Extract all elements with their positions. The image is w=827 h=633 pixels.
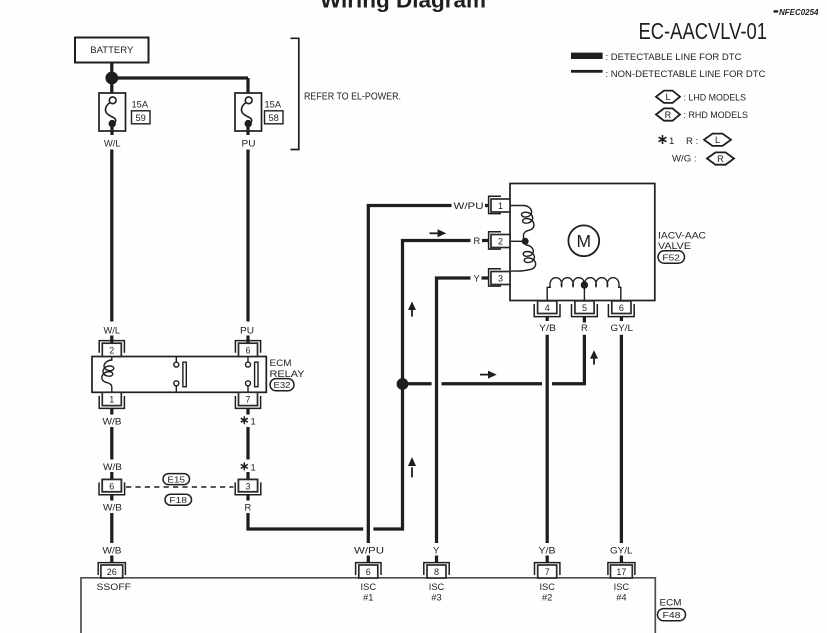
svg-text:15A: 15A bbox=[132, 99, 149, 109]
valve bottom coil left bbox=[547, 278, 584, 301]
svg-text:15A: 15A bbox=[265, 99, 282, 109]
svg-text:#1: #1 bbox=[363, 593, 373, 603]
svg-text:6: 6 bbox=[366, 567, 371, 577]
label ISC #4 bbox=[614, 582, 630, 603]
svg-text:8: 8 bbox=[434, 567, 439, 577]
relay pin 2 bbox=[99, 341, 124, 357]
svg-text:#4: #4 bbox=[616, 593, 626, 603]
motor symbol M bbox=[568, 225, 599, 256]
valve pin 1 bbox=[489, 196, 510, 213]
svg-text:#2: #2 bbox=[542, 593, 552, 603]
valve bottom coil right bbox=[584, 278, 620, 301]
relay name label bbox=[270, 358, 306, 380]
arrow up beside valve pin 5 riser bbox=[590, 350, 598, 365]
ECM pin 8 bbox=[424, 563, 449, 578]
svg-text:1: 1 bbox=[498, 201, 503, 211]
ECM pin 7 bbox=[535, 563, 560, 578]
wire GY/L down to ECM pin 17 bbox=[620, 335, 623, 543]
legend: RHD hexagon symbol bbox=[656, 108, 748, 121]
svg-text:W/PU: W/PU bbox=[454, 201, 484, 211]
IACV-AAC valve body bbox=[510, 184, 655, 301]
svg-text:NFEC0254: NFEC0254 bbox=[779, 7, 819, 17]
svg-text:2: 2 bbox=[498, 237, 503, 247]
svg-text:W/B: W/B bbox=[103, 502, 122, 512]
wire *1 bbox=[246, 427, 249, 460]
wire feed down to fuse 2 bbox=[246, 78, 249, 94]
wire PU stub to relay pin 6 bbox=[246, 336, 249, 344]
svg-text:M: M bbox=[577, 231, 592, 251]
junction dot R net bbox=[397, 378, 409, 390]
valve pin 2 bbox=[489, 232, 510, 249]
ECM pin 17 bbox=[608, 563, 635, 578]
wire Y stub into ECM pin 8 bbox=[435, 556, 438, 564]
svg-text:Y: Y bbox=[433, 545, 439, 555]
valve coil upper (pins 1-2) bbox=[510, 206, 534, 242]
valve coil lower (pins 2-3) bbox=[510, 245, 536, 271]
wire W/B bbox=[110, 427, 113, 460]
svg-text:6: 6 bbox=[109, 481, 114, 491]
wire R stub into valve pin 2 bbox=[482, 239, 489, 242]
wire W/L stub to relay pin 2 bbox=[110, 336, 113, 344]
svg-text:IACV-AAC: IACV-AAC bbox=[658, 230, 706, 241]
connector ref E15 bbox=[163, 474, 190, 485]
connector ref F18 bbox=[165, 494, 192, 505]
svg-text:ISC: ISC bbox=[429, 582, 445, 592]
svg-text:: RHD MODELS: : RHD MODELS bbox=[684, 110, 749, 121]
valve coil junction dot pin 2 bbox=[522, 238, 529, 245]
wire R elbow to junction column bbox=[248, 386, 403, 529]
valve pin 5 bbox=[572, 301, 598, 317]
svg-text:Y/B: Y/B bbox=[539, 545, 556, 555]
valve bottom coil junction dot pin 5 bbox=[581, 281, 588, 288]
connector 3 (E15/F18) bbox=[235, 479, 261, 494]
legend: non-detectable line sample bar bbox=[571, 69, 766, 80]
svg-text:3: 3 bbox=[245, 481, 250, 491]
wire Y stub into valve pin 3 bbox=[482, 276, 490, 279]
valve pin 3 bbox=[489, 269, 510, 286]
svg-text:W/L: W/L bbox=[104, 325, 121, 335]
wire *1 from relay pin 7 bbox=[246, 408, 249, 414]
svg-text:6: 6 bbox=[245, 346, 250, 356]
wire W/L bbox=[110, 150, 113, 322]
wire W/B from relay pin 1 bbox=[110, 408, 113, 414]
relay coil bbox=[102, 357, 114, 393]
svg-text:R: R bbox=[474, 236, 481, 246]
svg-text:F18: F18 bbox=[169, 495, 187, 505]
legend: *1 R footnote with L hexagon bbox=[659, 134, 731, 147]
arrow up beside R column bbox=[408, 302, 416, 317]
wire GY/L stub bbox=[620, 317, 623, 321]
svg-text:W/B: W/B bbox=[103, 545, 122, 555]
svg-text:R: R bbox=[717, 154, 724, 164]
svg-text:6: 6 bbox=[619, 303, 624, 313]
ECM relay body bbox=[92, 357, 266, 393]
svg-text:R :: R : bbox=[686, 136, 698, 147]
svg-text:R: R bbox=[245, 502, 252, 512]
svg-text:F48: F48 bbox=[663, 610, 681, 620]
svg-text:L: L bbox=[715, 135, 720, 145]
wire Y/B stub into ECM pin 7 bbox=[546, 556, 549, 564]
svg-text:17: 17 bbox=[616, 567, 626, 577]
svg-text:3: 3 bbox=[498, 274, 503, 284]
ECM connector ref F48 bbox=[658, 609, 686, 621]
svg-text:E32: E32 bbox=[274, 380, 291, 390]
svg-text:W/L: W/L bbox=[104, 138, 121, 148]
svg-text:59: 59 bbox=[136, 113, 146, 123]
svg-text:4: 4 bbox=[545, 303, 550, 313]
wire W/B below connector 6 bbox=[110, 495, 113, 501]
wire pin2 to coil bbox=[510, 240, 525, 242]
svg-text:GY/L: GY/L bbox=[610, 545, 633, 555]
svg-text:26: 26 bbox=[107, 567, 117, 577]
svg-text:BATTERY: BATTERY bbox=[90, 45, 133, 55]
wire R below connector 3 bbox=[246, 495, 249, 501]
dashed link E15/F18 bbox=[126, 486, 234, 488]
ECM body bbox=[81, 578, 655, 633]
wire battery feed horizontal bbox=[112, 76, 248, 79]
wire W/PU from valve pin 1 to ECM pin 6 bbox=[368, 206, 451, 544]
label *1 bbox=[241, 416, 256, 426]
wire W/B to ECM pin 26 bbox=[110, 513, 113, 543]
label ISC #3 bbox=[429, 582, 445, 603]
wire R net right toward valve pin 5 bbox=[408, 335, 584, 384]
svg-text:ISC: ISC bbox=[614, 582, 630, 592]
svg-text:1: 1 bbox=[109, 395, 114, 405]
junction dot battery feed bbox=[105, 72, 118, 85]
legend: W/G footnote with R hexagon bbox=[672, 152, 734, 164]
svg-text:EC-AACVLV-01: EC-AACVLV-01 bbox=[639, 18, 768, 44]
wire battery to junction bbox=[110, 63, 113, 94]
wire Y/B down to ECM pin 7 bbox=[546, 335, 549, 543]
arrow right on R net horizontal bbox=[480, 371, 497, 379]
legend: detectable line sample bar bbox=[571, 52, 742, 63]
svg-text:ECM: ECM bbox=[660, 598, 682, 609]
svg-text:: DETECTABLE LINE FOR DTC: : DETECTABLE LINE FOR DTC bbox=[606, 52, 742, 63]
label *1 above connector 3 bbox=[241, 462, 256, 472]
label ISC #1 bbox=[361, 582, 377, 603]
svg-text:L: L bbox=[665, 92, 670, 102]
fuse 15A 58 bbox=[235, 93, 283, 135]
wire GY/L stub into ECM pin 17 bbox=[620, 556, 623, 564]
svg-text:ECM: ECM bbox=[270, 358, 292, 369]
svg-text:58: 58 bbox=[269, 113, 279, 123]
svg-text:7: 7 bbox=[245, 395, 250, 405]
svg-text:Y/B: Y/B bbox=[539, 323, 556, 333]
svg-text:W/B: W/B bbox=[103, 462, 122, 472]
svg-text:R: R bbox=[581, 323, 588, 333]
relay contact right bbox=[246, 357, 259, 393]
svg-text:W/G :: W/G : bbox=[672, 154, 697, 165]
valve connector ref F52 bbox=[658, 251, 685, 263]
wire R net up to valve pin 2 bbox=[403, 241, 471, 383]
label ISC #2 bbox=[539, 582, 555, 603]
svg-text:1: 1 bbox=[669, 136, 674, 147]
wire W/PU stub into ECM pin 6 bbox=[367, 556, 370, 564]
bracket refer to EL-POWER bbox=[291, 38, 402, 149]
svg-text:W/B: W/B bbox=[103, 416, 122, 426]
relay pin 1 bbox=[99, 392, 124, 408]
svg-text:Wiring Diagram: Wiring Diagram bbox=[320, 0, 486, 13]
svg-text:W/PU: W/PU bbox=[354, 545, 384, 555]
svg-text:E15: E15 bbox=[167, 474, 185, 484]
wire Y from valve pin 3 to ECM pin 8 bbox=[437, 278, 471, 543]
valve pin 6 bbox=[608, 301, 634, 317]
relay pin 7 bbox=[235, 392, 260, 408]
wire Y/B stub bbox=[546, 317, 549, 321]
svg-text:7: 7 bbox=[545, 567, 550, 577]
ECM pin 26 bbox=[98, 563, 125, 578]
wire PU bbox=[246, 150, 249, 322]
ECM pin 6 bbox=[356, 563, 381, 578]
wire stub into connector 3 bbox=[246, 472, 249, 480]
svg-text:Y: Y bbox=[474, 274, 480, 284]
svg-text:F52: F52 bbox=[662, 252, 680, 262]
arrow right on R wire bbox=[430, 229, 447, 237]
title: Wiring Diagram (cropped at top) bbox=[320, 0, 486, 13]
svg-text:: NON-DETECTABLE LINE FOR DTC: : NON-DETECTABLE LINE FOR DTC bbox=[606, 69, 766, 80]
wire R stub to valve pin 5 bbox=[583, 317, 586, 323]
arrow up beside lower R column bbox=[408, 457, 416, 477]
relay pin 6 bbox=[235, 341, 260, 357]
wire W/B stub bbox=[110, 556, 113, 564]
svg-text:ISC: ISC bbox=[539, 582, 555, 592]
valve pin 4 bbox=[534, 301, 560, 317]
wire dot to pin 5 bbox=[583, 287, 585, 301]
fuse 15A 59 bbox=[99, 93, 150, 135]
svg-text:: LHD MODELS: : LHD MODELS bbox=[684, 92, 747, 103]
svg-text:1: 1 bbox=[251, 416, 256, 426]
valve name label bbox=[658, 230, 706, 252]
wire W/B stub into connector 6 bbox=[110, 472, 113, 480]
svg-text:PU: PU bbox=[240, 325, 254, 335]
svg-text:REFER TO EL-POWER.: REFER TO EL-POWER. bbox=[304, 92, 401, 103]
battery bbox=[75, 38, 149, 63]
svg-text:ISC: ISC bbox=[361, 582, 377, 592]
wire W/PU stub into valve pin 1 bbox=[485, 204, 489, 207]
legend: LHD hexagon symbol bbox=[656, 91, 746, 104]
svg-text:R: R bbox=[665, 110, 672, 120]
relay connector ref E32 bbox=[270, 379, 294, 391]
svg-text:2: 2 bbox=[109, 346, 114, 356]
svg-text:GY/L: GY/L bbox=[611, 323, 634, 333]
connector 6 (E15/F18) bbox=[99, 479, 125, 494]
relay contact middle bbox=[174, 357, 186, 393]
svg-text:5: 5 bbox=[582, 303, 587, 313]
doc code NFEC0254 bbox=[774, 7, 819, 17]
svg-text:1: 1 bbox=[251, 463, 256, 473]
svg-text:SSOFF: SSOFF bbox=[97, 582, 132, 592]
svg-text:PU: PU bbox=[242, 138, 256, 148]
heading EC-AACVLV-01 bbox=[639, 18, 768, 44]
svg-text:#3: #3 bbox=[431, 593, 441, 603]
